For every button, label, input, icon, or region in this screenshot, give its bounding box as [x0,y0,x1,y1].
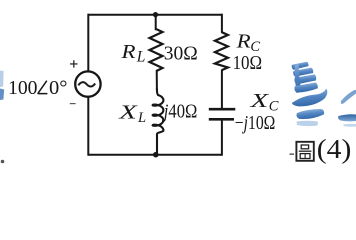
wire left upper (source top lead) [87,14,89,72]
svg-text:(4): (4) [317,134,352,164]
node dot bottom [153,152,159,158]
svg-text:−j10Ω: −j10Ω [235,112,276,134]
svg-text:100: 100 [8,77,38,99]
minus polarity mark [70,103,76,105]
svg-text:0°: 0° [49,77,67,99]
plus polarity mark [70,60,77,67]
inductor XL coil [153,89,164,154]
watermark big calligraphy character [288,60,330,120]
watermark right light echo [343,124,356,127]
wire RL to XL [156,70,158,90]
svg-text:R: R [120,41,136,63]
svg-text:L: L [136,49,146,66]
svg-text:10Ω: 10Ω [233,52,263,74]
wire middle top stub [155,14,157,31]
figure caption glyph 圖 (drawn) [296,142,313,161]
svg-text:R: R [235,31,251,53]
stray dot bottom left [1,160,5,164]
node dot top [153,12,158,17]
angle symbol [38,81,48,94]
ac source V1 circle [75,71,100,96]
svg-text:X: X [249,90,270,112]
wire bottom [88,154,222,156]
svg-text:X: X [118,101,139,123]
svg-text:30Ω: 30Ω [164,43,198,65]
capacitor XC top plate [209,108,236,111]
small dash before figure caption [290,153,295,155]
wire right top stub [221,14,223,33]
svg-text:j40Ω: j40Ω [161,101,197,123]
watermark right-edge strokes [338,90,356,122]
resistor RL zigzag [150,29,163,71]
wire left lower (source bottom lead) [87,97,89,156]
capacitor XC bottom plate [209,118,234,121]
watermark big char light echo [297,121,319,126]
wire XC to bottom [221,121,223,156]
watermark left-edge blue fragment [0,71,4,88]
svg-text:L: L [137,110,146,126]
resistor RC zigzag [215,32,228,70]
ac source sine wave [78,82,95,86]
wire top [88,14,222,16]
wire RC to XC [221,70,223,108]
